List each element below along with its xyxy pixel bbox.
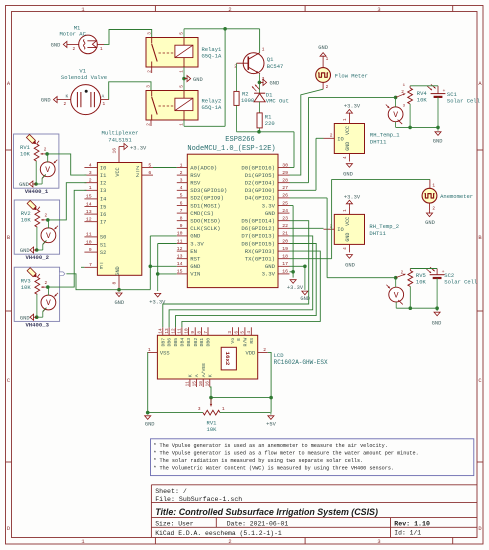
svg-text:8: 8 bbox=[112, 282, 118, 285]
sheet pin GND VH400_3 bbox=[59, 272, 119, 290]
svg-text:SD2(GPIO9): SD2(GPIO9) bbox=[190, 195, 224, 202]
junction SC1 signal node bbox=[394, 96, 398, 100]
power +3.3V RH_Temp_1 bbox=[344, 104, 361, 116]
potentiometer RV1 10K (contrast) bbox=[198, 399, 225, 434]
svg-text:GND: GND bbox=[114, 300, 124, 306]
svg-text:2: 2 bbox=[432, 207, 435, 212]
svg-text:RSV: RSV bbox=[190, 180, 201, 187]
wire M1 to Relay1 pin3 bbox=[104, 30, 152, 45]
power GND flow meter bbox=[318, 45, 328, 62]
svg-text:22: 22 bbox=[282, 223, 288, 229]
svg-text:10: 10 bbox=[184, 328, 189, 334]
svg-text:G5Q-1A: G5Q-1A bbox=[202, 104, 223, 111]
svg-text:DB1: DB1 bbox=[199, 338, 205, 347]
svg-text:VSS: VSS bbox=[160, 350, 170, 356]
svg-text:15: 15 bbox=[86, 194, 92, 200]
junction LCD K node bbox=[209, 396, 213, 400]
svg-text:10: 10 bbox=[177, 231, 183, 237]
svg-text:+3.3V: +3.3V bbox=[287, 285, 304, 291]
svg-text:7: 7 bbox=[204, 331, 209, 334]
solar cell SC1 bbox=[427, 84, 480, 127]
svg-text:G5Q-1A: G5Q-1A bbox=[202, 52, 223, 59]
svg-text:VH400_1: VH400_1 bbox=[25, 188, 49, 195]
svg-text:9: 9 bbox=[191, 331, 196, 334]
svg-text:2: 2 bbox=[64, 102, 67, 107]
wire flow meter to ESP D1(GPIO5) bbox=[290, 89, 324, 175]
anemometer AM1 (Vpulse) bbox=[422, 179, 473, 211]
sheet VH400_3 (probe + RV3 + voltmeter) bbox=[14, 267, 59, 328]
svg-text:+3.3V: +3.3V bbox=[130, 146, 147, 152]
svg-text:GND: GND bbox=[190, 263, 201, 270]
svg-text:DB6: DB6 bbox=[167, 338, 173, 347]
svg-text:2: 2 bbox=[45, 281, 48, 286]
junction SC1 bottom bbox=[436, 126, 440, 130]
svg-text:4: 4 bbox=[89, 162, 92, 168]
svg-text:30: 30 bbox=[282, 162, 288, 168]
wire ESP D8(GPIO15) to anemometer bbox=[290, 179, 430, 258]
svg-text:* The Volumetric Water Content: * The Volumetric Water Content (VWC) is … bbox=[153, 465, 394, 471]
svg-text:13: 13 bbox=[165, 328, 170, 334]
svg-text:14: 14 bbox=[159, 328, 164, 334]
svg-text:I0: I0 bbox=[100, 165, 106, 171]
svg-text:20: 20 bbox=[282, 238, 288, 244]
power GND LCD rail bbox=[145, 411, 155, 428]
svg-text:RST: RST bbox=[190, 256, 201, 263]
svg-text:Rev: 1.10: Rev: 1.10 bbox=[394, 520, 430, 527]
svg-text:2: 2 bbox=[401, 90, 404, 95]
junction coil rail bbox=[223, 27, 227, 31]
svg-text:GND: GND bbox=[41, 98, 51, 104]
svg-text:3: 3 bbox=[89, 170, 92, 176]
svg-text:VCC: VCC bbox=[345, 126, 351, 135]
svg-text:1: 1 bbox=[262, 48, 265, 53]
svg-text:Motor AC: Motor AC bbox=[59, 31, 86, 38]
svg-text:1: 1 bbox=[89, 185, 92, 191]
voltmeter VM5 SC2 bbox=[386, 278, 403, 309]
svg-text:C: C bbox=[7, 378, 10, 384]
svg-text:1000: 1000 bbox=[241, 97, 254, 104]
svg-text:CMD(CS): CMD(CS) bbox=[190, 210, 214, 217]
svg-text:21: 21 bbox=[282, 231, 288, 237]
svg-text:VCC: VCC bbox=[345, 217, 351, 226]
svg-text:24: 24 bbox=[282, 208, 288, 214]
wire ESP D4(GPIO2) to SC2 block bbox=[290, 198, 396, 278]
svg-text:1: 1 bbox=[432, 184, 435, 189]
svg-text:A0(ADC0): A0(ADC0) bbox=[190, 164, 217, 171]
svg-text:220: 220 bbox=[265, 120, 275, 127]
svg-text:E: E bbox=[236, 338, 242, 341]
svg-text:RS: RS bbox=[249, 338, 255, 344]
svg-text:K: K bbox=[207, 374, 213, 377]
wire LCD VDD to +5V rail bbox=[268, 352, 271, 412]
svg-text:11: 11 bbox=[178, 328, 183, 334]
svg-text:11: 11 bbox=[177, 238, 183, 244]
svg-text:17: 17 bbox=[282, 261, 288, 267]
svg-text:D4(GPIO2): D4(GPIO2) bbox=[245, 195, 275, 202]
svg-text:RX(GPIO3): RX(GPIO3) bbox=[245, 248, 275, 255]
svg-text:16: 16 bbox=[206, 381, 211, 387]
power +3.3V multiplexer VCC pin 16 bbox=[112, 143, 147, 162]
svg-text:29: 29 bbox=[282, 170, 288, 176]
power GND RH_Temp_2 bbox=[345, 255, 355, 269]
svg-text:3: 3 bbox=[228, 331, 233, 334]
svg-text:23: 23 bbox=[282, 216, 288, 222]
svg-text:14: 14 bbox=[177, 261, 183, 267]
svg-text:DB5: DB5 bbox=[173, 338, 179, 347]
svg-text:5: 5 bbox=[241, 331, 246, 334]
svg-text:CLK(SCLK): CLK(SCLK) bbox=[190, 225, 220, 232]
junction SC2 bottom bbox=[435, 306, 439, 310]
svg-text:V: V bbox=[393, 111, 398, 120]
svg-text:D5(GPIO14): D5(GPIO14) bbox=[241, 218, 275, 225]
wire SC1 top rail bbox=[410, 85, 438, 87]
junction RV5 bottom bbox=[409, 306, 413, 310]
svg-text:GND: GND bbox=[433, 139, 443, 145]
svg-text:1: 1 bbox=[180, 162, 183, 168]
svg-text:E: E bbox=[100, 265, 103, 271]
svg-text:26: 26 bbox=[282, 193, 288, 199]
svg-text:10: 10 bbox=[199, 381, 204, 387]
svg-text:GND: GND bbox=[270, 81, 280, 87]
svg-text:1: 1 bbox=[100, 47, 103, 52]
wire base node to ESP D0(GPIO16) bbox=[237, 132, 295, 168]
svg-text:1: 1 bbox=[222, 407, 225, 412]
svg-text:D: D bbox=[478, 526, 481, 532]
svg-text:V: V bbox=[394, 291, 399, 300]
svg-text:I4: I4 bbox=[100, 197, 106, 203]
svg-text:10K: 10K bbox=[417, 96, 428, 103]
svg-text:Id: 1/1: Id: 1/1 bbox=[394, 530, 421, 537]
svg-text:SD3(GPIO10): SD3(GPIO10) bbox=[190, 187, 227, 194]
relay RLY2 Relay2 G5Q-1A bbox=[146, 85, 222, 126]
power GND RH_Temp_1 bbox=[343, 164, 353, 178]
svg-text:Multiplexer: Multiplexer bbox=[102, 129, 139, 136]
svg-text:13: 13 bbox=[86, 209, 92, 215]
motor M1 Motor AC bbox=[59, 24, 104, 53]
svg-text:DB4: DB4 bbox=[180, 338, 186, 347]
svg-text:DB3: DB3 bbox=[186, 338, 192, 347]
svg-text:4: 4 bbox=[343, 247, 348, 250]
svg-text:VCC: VCC bbox=[115, 167, 121, 176]
svg-text:I1: I1 bbox=[100, 173, 106, 179]
wire VH400_3 to mux I3 bbox=[48, 190, 87, 287]
wire SC1 bottom rail bbox=[396, 126, 438, 128]
svg-text:Solar Cell: Solar Cell bbox=[444, 279, 477, 286]
svg-text:5: 5 bbox=[180, 193, 183, 199]
svg-text:A: A bbox=[194, 374, 200, 377]
svg-text:6: 6 bbox=[148, 170, 151, 176]
svg-text:GND: GND bbox=[432, 320, 442, 326]
svg-text:DB0: DB0 bbox=[206, 338, 212, 347]
svg-text:27: 27 bbox=[282, 185, 288, 191]
junction ESP pin15 VIN +3.3V bbox=[156, 272, 160, 276]
svg-text:11: 11 bbox=[86, 232, 92, 238]
voltmeter VM4 SC1 bbox=[386, 97, 403, 127]
svg-text:9: 9 bbox=[89, 247, 92, 253]
svg-text:K: K bbox=[188, 374, 194, 377]
svg-text:S2: S2 bbox=[100, 250, 106, 256]
svg-text:3.3V: 3.3V bbox=[262, 271, 276, 278]
svg-text:* The Vpulse generator is used: * The Vpulse generator is used as an ane… bbox=[153, 443, 387, 449]
power +3.3V ESP pins 25/16 bbox=[287, 206, 304, 291]
svg-text:D1(GPIO5): D1(GPIO5) bbox=[245, 172, 275, 179]
svg-text:2: 2 bbox=[45, 214, 48, 219]
svg-text:EN: EN bbox=[190, 248, 197, 255]
svg-text:+5V: +5V bbox=[266, 421, 276, 427]
wire bottom rail bbox=[148, 412, 271, 414]
svg-text:4: 4 bbox=[343, 156, 348, 159]
svg-text:NodeMCU_1.0_(ESP-12E): NodeMCU_1.0_(ESP-12E) bbox=[187, 145, 275, 153]
svg-text:IO: IO bbox=[337, 227, 343, 233]
svg-text:DHT11: DHT11 bbox=[370, 138, 387, 145]
svg-text:Solar Cell: Solar Cell bbox=[447, 97, 480, 104]
svg-text:+3.3V: +3.3V bbox=[344, 104, 361, 110]
multiplexer U2 74LS151 bbox=[81, 129, 153, 275]
svg-text:KiCad E.D.A. eeschema (5.1.2-: KiCad E.D.A. eeschema (5.1.2-1)-1 bbox=[155, 530, 282, 537]
svg-text:8: 8 bbox=[197, 331, 202, 334]
svg-text:Date: 2021-06-01: Date: 2021-06-01 bbox=[227, 520, 289, 527]
svg-text:3: 3 bbox=[198, 407, 201, 412]
svg-text:2: 2 bbox=[326, 85, 329, 90]
wire ESP D7(GPIO13) to LCD DB6 bbox=[169, 236, 313, 327]
potentiometer RV4 10K bbox=[396, 84, 428, 127]
svg-text:2: 2 bbox=[180, 170, 183, 176]
svg-text:12: 12 bbox=[171, 328, 176, 334]
svg-text:16: 16 bbox=[112, 148, 118, 154]
svg-text:3: 3 bbox=[147, 85, 152, 88]
wire +3.3V bus (ESP pin11 - pin15 VIN) bbox=[158, 244, 177, 274]
svg-text:RC1602A-GHW-ESX: RC1602A-GHW-ESX bbox=[274, 359, 328, 366]
potentiometer RV5 10K bbox=[396, 269, 427, 309]
svg-text:1: 1 bbox=[343, 118, 348, 121]
svg-text:1: 1 bbox=[81, 7, 84, 13]
svg-text:I3: I3 bbox=[100, 188, 106, 194]
svg-text:2: 2 bbox=[330, 133, 333, 139]
svg-text:3: 3 bbox=[147, 32, 152, 35]
svg-text:GND: GND bbox=[345, 233, 351, 242]
transistor Q1 BC547 bbox=[234, 48, 283, 82]
svg-text:18: 18 bbox=[282, 254, 288, 260]
svg-text:D: D bbox=[7, 526, 10, 532]
wire ESP D8 D6? to LCD DB5 bbox=[176, 244, 317, 328]
wire VH400_2 to mux I2 bbox=[48, 183, 87, 220]
svg-text:GND: GND bbox=[345, 262, 355, 268]
solar cell SC2 bbox=[426, 267, 477, 308]
svg-text:10K: 10K bbox=[21, 284, 32, 291]
svg-text:VDD: VDD bbox=[245, 350, 255, 356]
junction +5V node bbox=[269, 396, 273, 400]
svg-text:5: 5 bbox=[148, 162, 151, 168]
power +3.3V RH_Temp_2 bbox=[344, 194, 361, 206]
svg-text:C: C bbox=[478, 378, 481, 384]
svg-text:DB7: DB7 bbox=[160, 338, 166, 347]
svg-text:2: 2 bbox=[228, 539, 231, 545]
svg-text:10K: 10K bbox=[207, 426, 218, 433]
svg-text:Anemometer: Anemometer bbox=[440, 193, 473, 200]
svg-text:4: 4 bbox=[247, 331, 252, 334]
svg-text:74LS151: 74LS151 bbox=[108, 136, 132, 143]
svg-text:3.3V: 3.3V bbox=[190, 240, 204, 247]
sensor RH_Temp_1 DHT11 bbox=[324, 116, 401, 162]
svg-text:* The solar radiation is measu: * The solar radiation is measured by usi… bbox=[153, 458, 363, 464]
text notes box bbox=[151, 439, 474, 476]
svg-text:DB2: DB2 bbox=[193, 338, 199, 347]
svg-text:+: + bbox=[443, 89, 446, 94]
junction SC2 signal node bbox=[394, 276, 398, 280]
svg-text:* The Vpulse generator is used: * The Vpulse generator is used as a flow… bbox=[153, 450, 418, 456]
svg-text:V: V bbox=[46, 299, 51, 308]
svg-text:2: 2 bbox=[89, 178, 92, 184]
junction ESP pin14 GND bbox=[149, 265, 153, 269]
svg-text:VH400_3: VH400_3 bbox=[25, 321, 49, 328]
svg-text:V: V bbox=[45, 166, 50, 175]
svg-text:14: 14 bbox=[86, 201, 92, 207]
svg-text:1: 1 bbox=[326, 57, 329, 62]
svg-text:S1: S1 bbox=[100, 242, 106, 248]
power GND SC2 bbox=[432, 308, 442, 326]
flow meter FM1 (Vpulse) bbox=[316, 57, 368, 90]
svg-text:RSV: RSV bbox=[190, 172, 201, 179]
svg-text:D0(GPIO16): D0(GPIO16) bbox=[241, 164, 275, 171]
svg-text:File: SubSurface-1.sch: File: SubSurface-1.sch bbox=[155, 496, 242, 503]
power GND ESP pin17 bbox=[290, 265, 311, 302]
svg-text:I7: I7 bbox=[100, 220, 106, 226]
svg-text:10K: 10K bbox=[416, 278, 427, 285]
LCD U3 RC1602A-GHW-ESX bbox=[147, 327, 328, 387]
wire LCD VSS to GND rail bbox=[146, 352, 148, 412]
svg-text:25: 25 bbox=[282, 200, 288, 206]
svg-text:8: 8 bbox=[180, 216, 183, 222]
LED D1 VMC Out bbox=[252, 82, 289, 113]
svg-text:2: 2 bbox=[228, 7, 231, 13]
svg-text:6: 6 bbox=[180, 200, 183, 206]
svg-text:D8(GPIO15): D8(GPIO15) bbox=[241, 240, 275, 247]
svg-text:13: 13 bbox=[177, 254, 183, 260]
title block bbox=[151, 485, 477, 538]
svg-text:GND: GND bbox=[265, 263, 276, 270]
svg-text:GND: GND bbox=[318, 45, 328, 51]
junction R1/R2 node bbox=[257, 130, 261, 134]
svg-text:2: 2 bbox=[44, 148, 47, 153]
sheet VH400_2 (probe + RV2 + voltmeter) bbox=[14, 200, 59, 261]
resistor R1 220 bbox=[257, 113, 275, 132]
svg-text:GND: GND bbox=[265, 210, 276, 217]
svg-text:4: 4 bbox=[180, 185, 183, 191]
svg-text:1: 1 bbox=[103, 102, 106, 107]
wire relay2 coil to rail bbox=[184, 29, 225, 127]
wire ESP D3(GPIO0) to RH_Temp_1 IO bbox=[290, 138, 324, 190]
svg-text:Flow Meter: Flow Meter bbox=[335, 73, 368, 80]
svg-text:D7(GPIO13): D7(GPIO13) bbox=[241, 233, 275, 240]
svg-text:K: K bbox=[66, 93, 69, 99]
svg-text:7: 7 bbox=[180, 208, 183, 214]
svg-text:16: 16 bbox=[282, 269, 288, 275]
svg-text:3: 3 bbox=[180, 178, 183, 184]
svg-text:SD1(MOSI): SD1(MOSI) bbox=[190, 202, 220, 209]
svg-text:15: 15 bbox=[192, 381, 197, 387]
svg-text:6: 6 bbox=[234, 331, 239, 334]
svg-text:3: 3 bbox=[377, 539, 380, 545]
svg-text:Title: Controlled Subsurface I: Title: Controlled Subsurface Irrigation … bbox=[155, 507, 378, 517]
svg-text:RH_Temp_2: RH_Temp_2 bbox=[369, 223, 399, 230]
svg-text:19: 19 bbox=[282, 246, 288, 252]
wire relay coil rail to Q1 collector bbox=[184, 29, 260, 53]
svg-text:GND: GND bbox=[190, 233, 201, 240]
svg-text:VH400_2: VH400_2 bbox=[25, 254, 49, 261]
wire ESP RX(GPIO3) to LCD DB4 bbox=[182, 251, 320, 327]
sheet VH400_1 (probe + RV1 + voltmeter) bbox=[14, 134, 59, 195]
power GND multiplexer pin 8 + junction bbox=[112, 275, 124, 306]
power GND relay coils bbox=[182, 67, 203, 91]
svg-text:16x2: 16x2 bbox=[224, 352, 231, 366]
power GND valve V1 bbox=[41, 97, 62, 104]
svg-text:Sheet: /: Sheet: / bbox=[155, 488, 187, 495]
svg-text:GND: GND bbox=[145, 421, 155, 427]
svg-text:7: 7 bbox=[89, 262, 92, 268]
svg-text:RH_Temp_1: RH_Temp_1 bbox=[370, 131, 400, 138]
svg-text:10K: 10K bbox=[20, 151, 31, 158]
svg-text:BC547: BC547 bbox=[267, 63, 284, 70]
wire ESP D5(GPIO14) to LCD DB7 bbox=[163, 221, 309, 328]
svg-text:GND: GND bbox=[343, 172, 353, 178]
svg-text:11: 11 bbox=[186, 381, 191, 387]
svg-text:VMC Out: VMC Out bbox=[266, 98, 289, 105]
svg-text:10: 10 bbox=[86, 239, 92, 245]
solenoid valve V1 bbox=[61, 67, 109, 114]
svg-text:12: 12 bbox=[86, 217, 92, 223]
svg-text:V: V bbox=[46, 232, 51, 241]
relay RLY1 Relay1 G5Q-1A bbox=[146, 32, 222, 73]
svg-text:15: 15 bbox=[177, 269, 183, 275]
svg-text:SDO(MISO): SDO(MISO) bbox=[190, 218, 220, 225]
svg-text:10K: 10K bbox=[21, 217, 32, 224]
power GND SC1 bbox=[433, 127, 443, 144]
svg-text:D3(GPIO0): D3(GPIO0) bbox=[245, 187, 275, 194]
junction RV4 bottom bbox=[408, 126, 412, 130]
svg-text:IO: IO bbox=[337, 136, 343, 142]
svg-text:I6: I6 bbox=[100, 212, 106, 218]
power GND Q1 emitter bbox=[258, 74, 280, 86]
svg-text:GND: GND bbox=[51, 42, 61, 48]
svg-text:A/VEE: A/VEE bbox=[201, 363, 207, 378]
svg-text:+3.3V: +3.3V bbox=[344, 194, 361, 200]
svg-text:1: 1 bbox=[81, 539, 84, 545]
wire V1 to Relay2 pin3 bbox=[109, 82, 151, 100]
svg-text:Size: User: Size: User bbox=[155, 520, 194, 527]
svg-text:Vo: Vo bbox=[230, 338, 236, 344]
svg-text:VIN: VIN bbox=[190, 271, 200, 278]
wire mux Z to ESP A0(ADC0) bbox=[153, 167, 177, 169]
svg-text:GND: GND bbox=[425, 220, 435, 226]
svg-text:Solenoid Valve: Solenoid Valve bbox=[61, 74, 107, 81]
svg-text:GND: GND bbox=[345, 142, 351, 151]
resistor R2 1000 bbox=[234, 63, 254, 132]
svg-text:R/W: R/W bbox=[243, 338, 249, 347]
svg-text:2: 2 bbox=[401, 271, 404, 276]
svg-text:TX(GPIO1): TX(GPIO1) bbox=[245, 256, 275, 263]
power +5V LCD rail bbox=[266, 413, 276, 428]
svg-text:+3.3V: +3.3V bbox=[149, 300, 166, 306]
wire ESP D2(GPIO4) to SC1 block bbox=[290, 97, 396, 182]
svg-text:2: 2 bbox=[73, 47, 76, 52]
wire SC2 bottom rail bbox=[396, 307, 437, 309]
svg-text:D2(GPIO4): D2(GPIO4) bbox=[245, 180, 275, 187]
svg-text:1: 1 bbox=[343, 209, 348, 212]
svg-text:12: 12 bbox=[177, 246, 183, 252]
wire LCD backlight K to +5V bbox=[210, 387, 271, 403]
svg-text:9: 9 bbox=[180, 223, 183, 229]
svg-text:I5: I5 bbox=[100, 204, 106, 210]
